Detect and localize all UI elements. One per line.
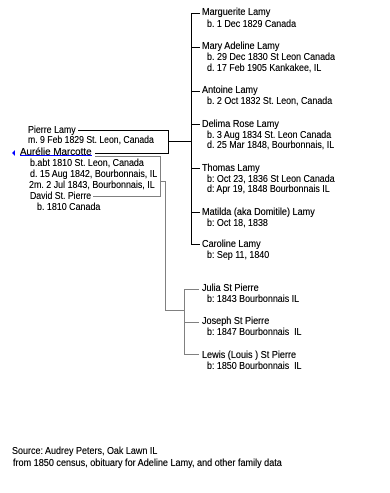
text src2 [13,459,282,469]
text c1-b [207,20,296,30]
wire box bottom (after Aurélie Marcotte) [95,153,169,154]
text c1 [202,8,270,18]
wire tick Mary [191,47,200,48]
text m-line [28,136,154,146]
wire gray box bottom (after David St. Pierre) [93,196,161,197]
text aurelie [20,148,92,158]
text c7 [202,240,261,250]
wire tick Matilda [191,212,200,213]
text c2 [202,42,279,52]
text s3-b [207,362,302,372]
text c2-b [207,53,335,63]
blue underline Aurélie Marcotte [20,155,92,156]
wire tick Delima [191,124,200,125]
text s1-b [207,295,299,305]
text c7-b [207,251,269,261]
text c5 [202,164,260,174]
text c4-b [207,131,331,141]
wire tick Julia [184,289,199,290]
wire StPierre bracket vertical [184,289,185,356]
text s1 [202,284,259,294]
text c5-d [207,185,330,195]
text aurelie-b [30,159,144,169]
wire marriage connector [169,141,191,142]
wire tick Caroline [191,244,200,245]
wire box right edge [168,130,169,154]
text s2 [202,317,269,327]
text c4-d [207,141,334,151]
text c6 [202,208,315,218]
text c2-d [207,64,321,74]
wire tick Marguerite [191,13,200,14]
text c4 [202,120,279,130]
wire gray box top [95,156,161,157]
wire 2m vertical drop [165,181,166,311]
text c3-b [207,97,332,107]
text c5-b [207,175,335,185]
wire tick Joseph [184,322,199,323]
text aurelie-2m [29,181,155,191]
wire tick Lewis [184,354,199,355]
text s3 [202,351,296,361]
blue arrow marker (focus person) [12,150,15,156]
wire tick Thomas [191,168,200,169]
wire StPierre feed [165,310,184,311]
wire 2m connector [160,181,166,182]
text david [30,192,91,202]
text pierre [28,126,76,136]
text c6-b [207,219,268,229]
text david-b [37,203,100,213]
text aurelie-d [30,170,157,180]
text s2-b [207,328,302,338]
wire tick Antoine [191,91,200,92]
text src1 [12,447,157,457]
text c3 [202,86,258,96]
wire gray box right edge [160,156,161,197]
wire children bracket vertical [191,13,192,245]
wire box top (after Pierre Lamy) [78,130,169,131]
